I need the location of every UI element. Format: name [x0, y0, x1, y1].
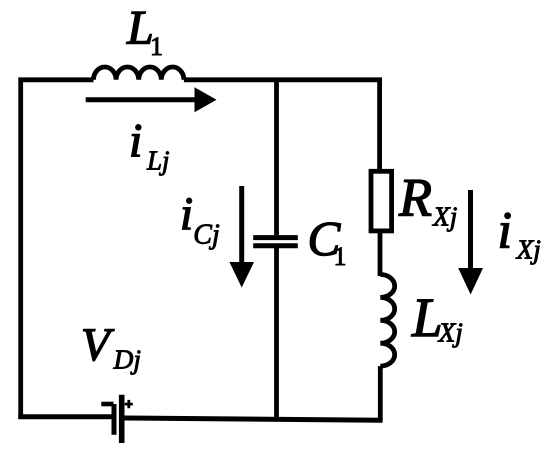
label C1 — [308, 211, 347, 271]
inductor L1 — [94, 67, 184, 80]
current arrow iLj — [86, 87, 217, 112]
svg-text:i: i — [180, 188, 193, 240]
current arrow iXj — [458, 190, 483, 295]
svg-text:Cj: Cj — [193, 219, 220, 250]
label L1 — [126, 2, 163, 62]
label iCj — [180, 188, 220, 250]
inductor LXj — [380, 275, 394, 367]
current arrow iCj — [229, 186, 254, 288]
svg-text:i: i — [498, 203, 512, 260]
capacitor C1 plates — [253, 238, 298, 246]
label LXj — [411, 287, 463, 348]
label VDj — [81, 319, 141, 374]
svg-text:Lj: Lj — [146, 146, 170, 176]
wire bottom left segment — [18, 414, 114, 419]
svg-text:1: 1 — [334, 242, 347, 271]
svg-text:Xj: Xj — [516, 234, 541, 265]
wire left side and top-left segment — [21, 80, 94, 419]
capacitor C1 bottom lead — [274, 248, 279, 419]
label RXj — [398, 168, 457, 232]
wire bottom right segment — [124, 418, 383, 420]
svg-text:1: 1 — [150, 32, 163, 61]
label iXj — [498, 203, 541, 265]
capacitor C1 top lead — [274, 80, 279, 235]
battery VDj — [101, 395, 133, 443]
svg-text:i: i — [129, 115, 142, 168]
wire top-right segment down to resistor — [184, 80, 380, 169]
svg-text:V: V — [81, 319, 115, 371]
resistor RXj — [371, 171, 392, 231]
wire right side bottom — [378, 366, 383, 420]
svg-text:Xj: Xj — [438, 317, 463, 348]
svg-text:R: R — [398, 168, 432, 228]
svg-text:Dj: Dj — [113, 344, 142, 375]
wire resistor to inductor LXj — [378, 231, 383, 276]
label iLj — [129, 115, 170, 176]
svg-text:Xj: Xj — [432, 201, 457, 232]
